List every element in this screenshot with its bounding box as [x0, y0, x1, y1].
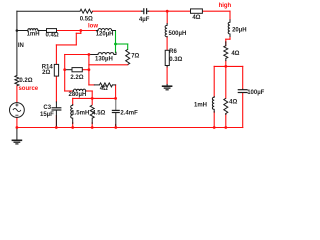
- svg-text:0.4Ω: 0.4Ω: [46, 33, 59, 39]
- svg-text:4Ω: 4Ω: [231, 51, 239, 57]
- svg-text:4Ω: 4Ω: [229, 99, 237, 105]
- svg-text:2.2Ω: 2.2Ω: [70, 75, 83, 81]
- svg-text:20µH: 20µH: [232, 28, 246, 34]
- svg-text:source: source: [18, 86, 38, 92]
- svg-text:1.5mH: 1.5mH: [71, 110, 89, 116]
- svg-text:120µH: 120µH: [96, 32, 114, 38]
- svg-text:1mH: 1mH: [27, 32, 40, 38]
- svg-text:R6: R6: [169, 49, 177, 55]
- svg-text:4µF: 4µF: [139, 17, 150, 23]
- svg-text:1mH: 1mH: [194, 102, 207, 108]
- svg-text:2Ω: 2Ω: [42, 70, 50, 76]
- svg-text:4Ω: 4Ω: [192, 15, 200, 21]
- svg-text:IN: IN: [18, 43, 24, 49]
- svg-text:500µH: 500µH: [168, 31, 186, 37]
- svg-text:high: high: [219, 3, 232, 9]
- svg-text:100µF: 100µF: [247, 90, 264, 96]
- svg-text:4.5Ω: 4.5Ω: [92, 110, 105, 116]
- svg-text:0.5Ω: 0.5Ω: [80, 17, 93, 23]
- svg-text:0.3Ω: 0.3Ω: [169, 57, 182, 63]
- svg-text:C3: C3: [43, 105, 51, 111]
- svg-text:280µH: 280µH: [68, 92, 86, 98]
- svg-text:low: low: [88, 23, 98, 29]
- svg-text:7Ω: 7Ω: [131, 53, 139, 59]
- svg-text:0.2Ω: 0.2Ω: [19, 78, 32, 84]
- svg-text:2.4mF: 2.4mF: [120, 110, 138, 116]
- svg-text:15µF: 15µF: [40, 112, 54, 118]
- svg-text:130µH: 130µH: [95, 57, 113, 63]
- svg-text:4Ω: 4Ω: [100, 86, 108, 92]
